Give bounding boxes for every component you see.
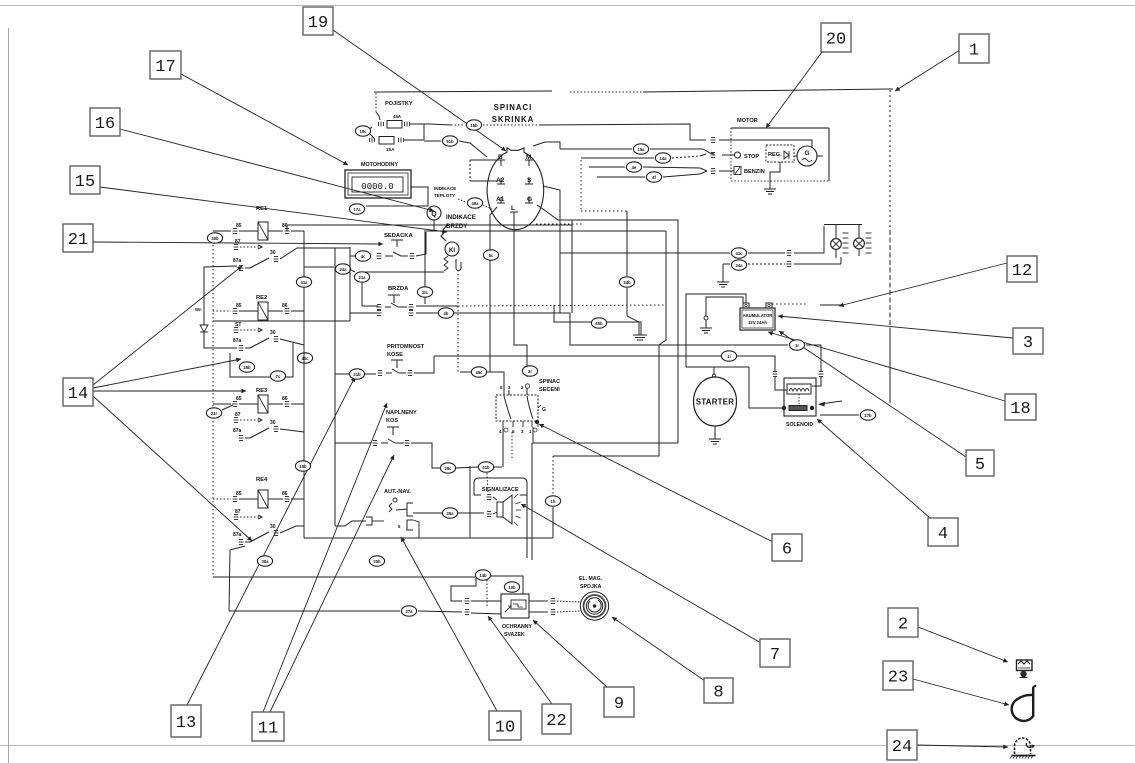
svg-text:87a: 87a — [233, 532, 242, 538]
solenoid tag 27b wire — [820, 414, 859, 416]
svg-text:4b: 4b — [444, 311, 449, 316]
svg-text:18: 18 — [1010, 400, 1030, 419]
wire tag 24a — [335, 264, 350, 274]
svg-text:87: 87 — [235, 239, 241, 245]
wire B to solenoid left coil — [434, 355, 721, 357]
wire tag 21a — [354, 272, 369, 282]
aut-nav lower bracket to y538 — [418, 530, 420, 538]
leader line callout 3 — [778, 316, 1013, 338]
leader line callout 24 — [917, 745, 1008, 747]
svg-text:SPINACI: SPINACI — [494, 103, 533, 112]
wire BRZDA row1 dashed to x=666 — [416, 305, 458, 307]
wire pritomnost right to wire B — [414, 356, 434, 373]
solenoid contact bar — [789, 406, 807, 411]
fuse F2 row — [370, 138, 375, 143]
KI resistor zigzag — [444, 256, 448, 271]
svg-text:A2: A2 — [496, 177, 505, 184]
svg-text:17a: 17a — [354, 207, 362, 212]
motor BENZIN input — [734, 167, 741, 175]
wire ignition S down x=560 — [543, 186, 560, 313]
svg-text:16: 16 — [95, 115, 115, 134]
svg-text:22: 22 — [546, 712, 566, 731]
callout box 10 — [489, 711, 521, 740]
svg-text:BENZIN: BENZIN — [744, 169, 765, 175]
wire tag 4f — [646, 172, 661, 182]
starter stub — [713, 374, 716, 377]
lamp ground wire y=264 — [722, 263, 724, 265]
wire y=611 long — [229, 610, 400, 612]
starter motor circle — [694, 377, 737, 426]
svg-text:87a: 87a — [233, 258, 242, 264]
wire tag 14b — [475, 570, 490, 580]
svg-text:19: 19 — [308, 14, 328, 33]
svg-text:51b: 51b — [446, 139, 454, 144]
callout box 7 — [760, 639, 790, 667]
svg-text:87a: 87a — [233, 338, 242, 344]
svg-text:SKRINKA: SKRINKA — [492, 115, 535, 124]
aut-nav left connector — [366, 517, 372, 525]
wire tag 4c — [355, 251, 370, 261]
leader line callout 23 — [913, 679, 1009, 705]
svg-text:4f: 4f — [652, 175, 656, 180]
svg-text:10b: 10b — [508, 585, 516, 590]
ignition terminal G — [525, 202, 533, 204]
leader line callout 7 — [521, 504, 761, 643]
svg-text:3: 3 — [1023, 334, 1033, 353]
svg-text:2: 2 — [898, 616, 908, 635]
callout box 21 — [63, 224, 93, 252]
svg-text:25a: 25a — [447, 511, 455, 516]
svg-text:27a: 27a — [406, 609, 414, 614]
solenoid box — [784, 378, 816, 416]
svg-text:STOP: STOP — [744, 154, 759, 160]
svg-text:8: 8 — [713, 684, 723, 703]
wire x=749 to solenoid — [749, 367, 782, 408]
svg-text:Q: Q — [431, 211, 437, 218]
svg-text:4: 4 — [499, 429, 502, 434]
svg-text:SPOJKA: SPOJKA — [580, 584, 602, 590]
svg-text:1: 1 — [969, 42, 979, 61]
ground at 34b chain — [633, 327, 645, 340]
wire ignition A2 stub — [470, 180, 497, 182]
wire tag 20b — [369, 556, 384, 566]
svg-text:G: G — [542, 407, 546, 413]
wire BRZDA row2 left — [350, 313, 378, 321]
ignition terminal B — [497, 159, 505, 161]
wire tag 51b — [442, 136, 457, 146]
wire tag 1i — [721, 351, 736, 361]
svg-text:S: S — [527, 177, 532, 184]
svg-text:21a: 21a — [359, 275, 367, 280]
wire tag 27a — [401, 606, 416, 616]
callout box 12 — [1007, 256, 1037, 282]
callout box 6 — [772, 534, 802, 561]
leader line callout 22 — [488, 616, 552, 704]
ignition terminal A2 — [497, 183, 505, 185]
wire tag 1r — [789, 340, 804, 350]
svg-text:0000.0: 0000.0 — [361, 182, 393, 192]
lamp feed wire y=253 — [560, 252, 730, 254]
wire y=225 from relay RE1 — [287, 225, 572, 231]
leader line callout 14 (b) — [93, 390, 246, 392]
leader line callout 20 — [766, 52, 822, 128]
svg-text:11: 11 — [258, 720, 278, 739]
motor STOP input — [735, 152, 741, 158]
wire tag 30a — [257, 556, 272, 566]
wire y=456 x=553 to y=538 — [552, 456, 554, 495]
svg-text:KOSE: KOSE — [387, 352, 403, 358]
svg-text:INDIKACE: INDIKACE — [434, 186, 456, 191]
callout box 8 — [704, 678, 733, 703]
callout box 15 — [70, 166, 100, 194]
wire BRZDA row2 to solenoid (A) — [416, 312, 438, 314]
wire pin4 down — [502, 427, 504, 467]
ignition terminal A1 — [497, 202, 505, 204]
page frame bottom line — [0, 745, 1135, 747]
solenoid pointer arrow — [820, 401, 842, 404]
regulator diode — [784, 151, 789, 159]
svg-text:6: 6 — [782, 541, 792, 560]
icon for callout 24 (belt guard) — [1015, 738, 1031, 754]
wires protective switch to clutch — [529, 600, 548, 602]
wire tag 2r — [522, 366, 537, 376]
svg-text:15A: 15A — [386, 147, 395, 152]
svg-text:L: L — [511, 205, 515, 212]
dashed to speaker top — [487, 473, 488, 493]
svg-text:MOTOR: MOTOR — [737, 118, 758, 124]
wire tag 5c — [483, 250, 498, 260]
callout box 1 — [959, 34, 989, 63]
wire ignition M to motor row — [533, 142, 560, 149]
svg-text:2r: 2r — [528, 369, 532, 374]
wire tag 40b — [591, 318, 606, 328]
svg-text:2: 2 — [521, 385, 524, 390]
svg-text:21: 21 — [68, 231, 88, 250]
wire x=470 down to y538 — [469, 466, 471, 538]
RE4 contact wire to y538 — [280, 526, 304, 538]
svg-text:G: G — [527, 196, 532, 203]
callout box 24 — [887, 730, 917, 760]
svg-text:30a: 30a — [262, 559, 270, 564]
leader line callout 11 (a) — [263, 403, 387, 712]
svg-text:24: 24 — [892, 738, 912, 757]
svg-text:REG.: REG. — [768, 152, 782, 158]
svg-text:86: 86 — [282, 303, 288, 309]
mower switch bottom pins — [502, 421, 504, 427]
svg-text:1r: 1r — [795, 343, 799, 348]
brake light KI circle — [441, 236, 446, 241]
svg-text:23: 23 — [888, 669, 908, 688]
svg-text:RE1: RE1 — [256, 206, 268, 212]
wire tag 14a — [655, 153, 670, 163]
callout box 3 — [1013, 328, 1043, 354]
wire fuse to ignition 51b — [424, 140, 441, 142]
callout box 9 — [604, 687, 634, 717]
RE4 87a wire down-left — [229, 546, 245, 611]
leader line callout 9 — [533, 620, 607, 687]
wire y=267 tag 24a — [304, 266, 334, 268]
wire tag 40a — [467, 198, 482, 208]
svg-text:41a: 41a — [301, 280, 309, 285]
svg-text:5: 5 — [500, 385, 503, 390]
battery ground — [704, 316, 708, 320]
brake indicator Q circle — [427, 206, 441, 220]
svg-text:86: 86 — [282, 491, 288, 497]
horn block SIGNALIZACE — [474, 478, 527, 495]
svg-text:30: 30 — [270, 250, 276, 256]
leader line callout 2 — [918, 627, 1008, 662]
svg-text:9: 9 — [614, 695, 624, 714]
wire tag 41a — [296, 277, 311, 287]
horn speaker symbol — [497, 502, 503, 517]
wire tag 34b — [619, 277, 634, 287]
battery left wires — [686, 294, 746, 367]
wire 40b branch — [554, 305, 641, 327]
page frame top line — [0, 5, 1135, 7]
svg-text:3: 3 — [508, 385, 511, 390]
generator G circle — [797, 146, 817, 166]
svg-text:12V 24Ah: 12V 24Ah — [748, 320, 767, 325]
wire tag 4b — [438, 308, 453, 318]
wire tag 25a — [442, 508, 457, 518]
wire pritomnost left with tag 21b — [335, 373, 349, 375]
callout box 20 — [821, 23, 851, 52]
svg-text:4c: 4c — [361, 254, 366, 259]
svg-text:RE3: RE3 — [256, 388, 268, 394]
svg-text:4e: 4e — [632, 165, 637, 170]
wire naplneny right down to y468 — [411, 443, 440, 468]
svg-text:AKUMULATOR: AKUMULATOR — [743, 313, 773, 318]
leader line callout 6 — [539, 424, 773, 542]
boundary dash-dot line (callout 1 target) — [889, 90, 891, 230]
wire 45c to pin 5 — [460, 371, 471, 373]
svg-text:85: 85 — [236, 303, 242, 309]
ignition terminal L — [510, 211, 518, 213]
svg-text:1: 1 — [529, 429, 532, 434]
wire KI link — [362, 271, 444, 273]
wire naplneny left — [335, 442, 371, 444]
wire motor feed y=125 — [430, 124, 451, 125]
svg-text:SOLENOID: SOLENOID — [786, 422, 813, 428]
svg-text:ST: ST — [235, 322, 241, 328]
svg-text:20: 20 — [826, 31, 846, 50]
wire fuse drop dotted — [375, 93, 377, 112]
dashed vertical callout22 target — [486, 580, 488, 606]
svg-text:SVAZEK: SVAZEK — [504, 632, 525, 638]
leader line callout 8 — [612, 617, 705, 681]
svg-text:21r: 21r — [211, 411, 218, 416]
wire tag 17a — [349, 204, 364, 214]
wire tag 21b — [349, 369, 364, 379]
svg-text:5: 5 — [975, 456, 985, 475]
svg-text:85: 85 — [236, 491, 242, 497]
bus x=335 — [334, 248, 336, 526]
wire tag 25b — [239, 362, 254, 372]
wire pin1 to y=443 — [533, 427, 678, 443]
leader line callout 13 — [187, 377, 355, 705]
wire BRZDA row1 left — [362, 305, 378, 307]
wire tag 45c — [471, 367, 486, 377]
bracket from y577 to protective switch — [451, 577, 476, 601]
leader line callout 18 — [768, 332, 1005, 401]
svg-text:SEDACKA: SEDACKA — [384, 233, 413, 239]
svg-text:15b: 15b — [470, 123, 478, 128]
svg-text:40c: 40c — [302, 356, 310, 361]
svg-text:SPINAC: SPINAC — [539, 379, 560, 385]
RE2 contact wire down — [280, 339, 304, 345]
leader line callout 21 — [93, 242, 383, 244]
battery AKUMULATOR 12V 24Ah — [740, 308, 775, 330]
wire tag 1h — [545, 496, 560, 506]
svg-text:14a: 14a — [660, 156, 668, 161]
solenoid junction dots — [782, 406, 785, 409]
motor ground wire — [770, 162, 780, 181]
leader line callout 19 — [333, 30, 506, 151]
leader line callout 1 — [895, 50, 960, 91]
svg-text:34b: 34b — [623, 280, 631, 285]
callout box 18 — [1005, 394, 1036, 420]
svg-text:19b: 19b — [299, 464, 307, 469]
leader line callout 4 — [817, 419, 930, 518]
svg-text:EL. MAG.: EL. MAG. — [579, 576, 603, 582]
left dotted bus x=213 — [212, 245, 214, 321]
wire tag 30b — [207, 233, 222, 243]
ignition terminal S — [525, 183, 533, 185]
wire tag 15b — [466, 120, 481, 130]
wire ignition G to x=678 — [537, 205, 678, 443]
callout box 22 — [542, 704, 571, 734]
svg-text:40a: 40a — [472, 201, 480, 206]
leader line callout 11 (b) — [270, 455, 394, 712]
leader line callout 5 — [779, 331, 966, 457]
RE2 lower loop with tags — [230, 343, 293, 377]
svg-text:13: 13 — [176, 714, 196, 733]
wire tag 19b — [295, 461, 310, 471]
svg-text:41c: 41c — [736, 251, 744, 256]
svg-text:15: 15 — [75, 173, 95, 192]
wire y=367 starter loop — [686, 366, 749, 368]
wire fuse feeds — [423, 124, 425, 140]
svg-text:86: 86 — [282, 396, 288, 402]
svg-text:KI: KI — [449, 248, 455, 254]
wire x=572 vertical — [571, 220, 573, 313]
leader line callout 14 (a) — [93, 266, 242, 385]
svg-text:RE4: RE4 — [256, 477, 268, 483]
battery + dashed wire (callout 12 target) — [772, 303, 806, 305]
seat switch SEDACKA — [396, 240, 398, 247]
wire ignition A1 down x=490 — [490, 207, 497, 372]
svg-text:40b: 40b — [595, 321, 603, 326]
wire tag 27b — [860, 410, 875, 420]
svg-text:45A: 45A — [393, 114, 402, 119]
svg-text:25c: 25c — [445, 466, 453, 471]
ignition switch body — [487, 148, 544, 230]
svg-text:AUT.-NAV.: AUT.-NAV. — [384, 489, 411, 495]
svg-text:PRITOMNOST: PRITOMNOST — [387, 344, 425, 350]
aut-nav contact bracket 1 — [407, 503, 413, 516]
svg-text:TEPLOTY: TEPLOTY — [434, 193, 455, 198]
svg-text:10: 10 — [495, 719, 515, 738]
svg-text:1i: 1i — [727, 354, 731, 359]
page frame left edge line — [8, 28, 10, 763]
wire x=532 down — [531, 443, 533, 560]
svg-text:MOTOHODINY: MOTOHODINY — [361, 162, 398, 168]
mower switch blades — [504, 396, 511, 419]
svg-text:3: 3 — [521, 429, 524, 434]
svg-text:45c: 45c — [476, 370, 484, 375]
protective switch box OCHRANNY — [501, 594, 529, 618]
leader line callout 14 (d) — [93, 359, 241, 388]
ignition terminal M — [525, 159, 533, 161]
svg-text:BRZDY: BRZDY — [446, 223, 468, 230]
KI U connector — [456, 259, 461, 271]
icon for callout 2 (connector clip) — [1017, 660, 1033, 671]
svg-text:14b: 14b — [479, 573, 487, 578]
svg-text:POJISTKY: POJISTKY — [385, 101, 413, 107]
svg-text:OCHRANNY: OCHRANNY — [502, 624, 533, 630]
wire dotted engine ground chain — [580, 160, 582, 211]
callout box 14 — [63, 378, 93, 406]
svg-text:NAPLNENY: NAPLNENY — [386, 410, 417, 416]
svg-text:G: G — [804, 150, 809, 157]
svg-text:RE2: RE2 — [256, 295, 267, 301]
brake switch BRZDA — [393, 295, 395, 303]
svg-text:M: M — [526, 154, 531, 161]
leader line callout 10 — [401, 537, 497, 711]
wire tag 21r — [206, 408, 221, 418]
horn connectors — [487, 495, 492, 500]
svg-text:12: 12 — [1012, 262, 1032, 281]
long wire y=577 — [213, 576, 475, 578]
headlamp assembly — [824, 224, 862, 226]
svg-text:A1: A1 — [496, 196, 505, 203]
leader line callout 12 — [839, 263, 1007, 306]
leader line callout 16 — [120, 129, 434, 211]
callout box 23 — [883, 661, 913, 690]
top bus wire y=90 — [374, 91, 552, 92]
svg-text:14: 14 — [68, 385, 88, 404]
wire tag 10c — [355, 126, 370, 136]
wire ignition B stub — [470, 159, 497, 161]
svg-text:17: 17 — [155, 58, 175, 77]
svg-text:4: 4 — [938, 525, 948, 544]
wire dotted x=458 — [457, 270, 459, 372]
callout box 5 — [966, 450, 994, 476]
right relay bus x=304 — [303, 231, 305, 527]
hour meter box — [345, 170, 411, 198]
wire sedacka bus y=231 — [424, 230, 666, 232]
wire tag 7c — [270, 371, 285, 381]
svg-text:87: 87 — [235, 412, 241, 418]
relay RE1 contact wire to x350 — [280, 248, 350, 259]
svg-text:1h: 1h — [551, 499, 556, 504]
wire tag 41c — [731, 248, 746, 258]
wire tag 34a — [731, 260, 746, 270]
svg-text:7c: 7c — [276, 374, 281, 379]
wire tag 10b — [504, 582, 519, 592]
ground for lamps — [722, 264, 724, 274]
svg-text:85: 85 — [236, 396, 242, 402]
svg-text:5c: 5c — [489, 253, 494, 258]
svg-text:85: 85 — [236, 223, 242, 229]
callout box 2 — [888, 608, 918, 637]
motor inner top wire — [731, 140, 812, 147]
wire aut-nav to speaker with tag 25a — [413, 512, 442, 514]
svg-text:27b: 27b — [864, 413, 872, 418]
svg-text:10c: 10c — [360, 129, 368, 134]
svg-text:30: 30 — [270, 524, 276, 530]
svg-text:2lc: 2lc — [422, 290, 428, 295]
